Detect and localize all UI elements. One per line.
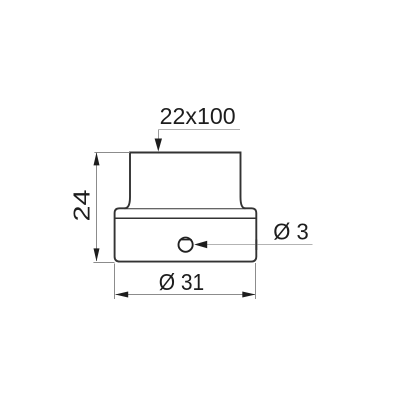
hole Ø3 circle: [179, 238, 193, 252]
dim Ø31: left extension line: [114, 264, 116, 300]
leader line Ø3: [196, 244, 313, 246]
dim 24: arrow up: [94, 152, 100, 165]
base lip line: [115, 217, 257, 219]
dim Ø31: arrow right: [242, 292, 255, 298]
leader arrow (left) to hole: [194, 241, 207, 248]
hole chord line: [180, 239, 192, 241]
dim 24: bottom extension line: [93, 262, 114, 264]
svg-text:Ø 3: Ø 3: [273, 219, 309, 245]
leader line 22x100 (horizontal): [159, 129, 241, 131]
dim Ø31: dimension line: [116, 294, 256, 296]
dim Ø31: right extension line: [255, 263, 257, 299]
dim Ø31: arrow left: [115, 292, 128, 298]
svg-text:22x100: 22x100: [160, 103, 236, 129]
svg-text:Ø 31: Ø 31: [159, 269, 205, 295]
leader arrow (down) to tube top: [155, 139, 162, 152]
svg-text:24: 24: [69, 190, 95, 222]
base right edge over leader crossing: [255, 240, 257, 251]
dim 24: top extension line: [94, 152, 129, 154]
part outline: flange base (Ø31): [115, 208, 257, 261]
dim 24: arrow down: [94, 248, 100, 261]
dim 24: dimension line: [96, 153, 98, 261]
part outline: tube 22x100 with flared foot: [125, 153, 246, 209]
leader line 22x100 (vertical drop): [158, 130, 160, 150]
